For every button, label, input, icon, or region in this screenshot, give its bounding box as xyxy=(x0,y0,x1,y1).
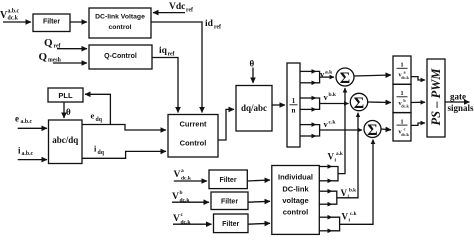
svg-text:a.b.c: a.b.c xyxy=(22,151,34,157)
wire 1/n out b1 xyxy=(300,97,316,99)
svg-text:1: 1 xyxy=(400,90,403,97)
label Vb dc.k xyxy=(172,190,190,204)
filter F3 box xyxy=(211,192,248,210)
svg-text:DC-link Voltage: DC-link Voltage xyxy=(95,14,145,21)
wire Vi a out 2 xyxy=(319,180,332,182)
wire id_ref xyxy=(151,22,202,113)
wire PLL feedback xyxy=(85,94,110,124)
label Vdc_ref xyxy=(169,2,193,14)
label e_a.b.c xyxy=(15,113,33,125)
label v b.k xyxy=(324,92,337,102)
svg-text:dc.k: dc.k xyxy=(181,220,192,226)
wire F1 to DC-link control xyxy=(70,21,87,23)
svg-text:dq: dq xyxy=(98,150,105,156)
block PLL xyxy=(48,88,83,102)
wire F3 to individual control xyxy=(248,200,270,203)
wire 1/n out a2 xyxy=(300,82,316,84)
svg-text:control: control xyxy=(108,24,131,31)
wire Vdc.k input arrow xyxy=(3,21,31,23)
text Individual DC-link voltage control xyxy=(278,173,313,217)
svg-text:V: V xyxy=(173,214,180,224)
text 1/va fraction xyxy=(397,62,410,81)
wire 1/n out a1 xyxy=(300,70,316,72)
svg-text:Control: Control xyxy=(180,139,207,148)
wire 1/vc to PS-PWM xyxy=(411,123,425,125)
svg-text:1: 1 xyxy=(400,118,403,125)
wire S1 to 1/va box xyxy=(354,75,391,76)
block Q-Control xyxy=(89,45,152,69)
label Vi b.k xyxy=(341,188,357,201)
wire merge c to sum3 xyxy=(316,125,320,136)
svg-text:voltage: voltage xyxy=(282,196,308,205)
wire Vi b out 1 xyxy=(319,190,332,192)
wire Vc dc.k input xyxy=(173,223,212,225)
wire gate signals output xyxy=(445,101,470,103)
svg-text:control: control xyxy=(283,208,308,217)
svg-text:Σ: Σ xyxy=(367,122,377,139)
svg-text:Σ: Σ xyxy=(354,95,364,112)
text 1/n fraction xyxy=(290,97,298,115)
svg-text:V: V xyxy=(172,192,179,202)
svg-text:gate: gate xyxy=(450,92,466,102)
svg-text:V: V xyxy=(341,188,348,198)
svg-text:dq: dq xyxy=(96,117,103,123)
summing junction S2 xyxy=(350,93,367,110)
label Vi a.k xyxy=(328,151,343,164)
block PS-PWM xyxy=(427,59,445,137)
svg-text:ref: ref xyxy=(54,44,61,50)
filter F1 box xyxy=(33,14,70,32)
svg-text:b.k: b.k xyxy=(349,188,356,194)
svg-text:mesh: mesh xyxy=(48,58,62,64)
svg-text:1: 1 xyxy=(400,62,403,69)
wire 1/n out c2 xyxy=(300,135,316,137)
svg-text:b.k: b.k xyxy=(329,92,337,98)
svg-text:V: V xyxy=(328,152,335,162)
wire Q_mesh input xyxy=(53,62,87,64)
label Vi c.k xyxy=(342,211,357,224)
svg-text:a: a xyxy=(181,168,184,174)
label v c.k xyxy=(324,119,337,129)
svg-text:id: id xyxy=(205,19,214,29)
svg-text:PS – PWM: PS – PWM xyxy=(429,68,443,126)
label gate signals xyxy=(448,92,474,114)
block DC-link Voltage control xyxy=(89,8,151,38)
svg-text:signals: signals xyxy=(448,103,474,113)
svg-text:Q-Control: Q-Control xyxy=(104,53,137,60)
wire merge Vi b riser to S2 xyxy=(332,191,337,204)
svg-text:dc.k: dc.k xyxy=(401,75,409,80)
wire Va dc.k input xyxy=(174,180,207,182)
label iq_ref xyxy=(159,46,175,58)
svg-text:DC-link: DC-link xyxy=(282,184,309,193)
svg-text:ref: ref xyxy=(214,25,221,31)
svg-text:Filter: Filter xyxy=(219,177,236,184)
wire 1/n out b2 xyxy=(300,108,316,110)
label e_dq xyxy=(91,111,103,123)
wire merge Vi c riser to S3 xyxy=(332,217,340,231)
svg-text:c.k: c.k xyxy=(350,211,357,217)
wire Vi c out 2 xyxy=(319,230,332,232)
svg-text:iq: iq xyxy=(159,46,168,56)
svg-text:Q: Q xyxy=(39,51,48,63)
svg-text:ref: ref xyxy=(168,52,175,58)
label V a.b.c dc.k top left xyxy=(0,9,20,22)
label Q_ref xyxy=(44,37,61,50)
svg-text:dc.k: dc.k xyxy=(181,176,192,182)
svg-text:b: b xyxy=(180,190,183,196)
svg-text:V: V xyxy=(342,212,349,222)
wire F2 to individual control xyxy=(247,180,270,181)
block Current Control xyxy=(168,115,218,158)
label v a.k xyxy=(320,69,333,79)
svg-text:ref: ref xyxy=(186,8,193,14)
summing junction S1 xyxy=(336,68,354,86)
filter F2 box xyxy=(209,170,247,189)
label Va dc.k xyxy=(174,168,192,182)
block dq/abc xyxy=(236,86,272,132)
label i_dq xyxy=(94,144,105,156)
svg-text:Individual: Individual xyxy=(278,173,313,182)
wire S2 to 1/vb box xyxy=(368,101,391,104)
wire theta to dq/abc xyxy=(252,68,254,84)
block 1/n xyxy=(287,63,300,147)
svg-text:Current: Current xyxy=(179,120,207,129)
wire i_abc input xyxy=(18,159,47,161)
wire Q_ref input xyxy=(57,48,87,50)
wire merge Vi a riser to S1 xyxy=(332,167,338,181)
wire Vi b out 2 xyxy=(319,203,332,205)
svg-text:a.b.c: a.b.c xyxy=(8,9,20,15)
svg-text:Σ: Σ xyxy=(340,70,350,87)
text 1/vc fraction xyxy=(397,118,410,137)
filter F4 box xyxy=(214,214,249,233)
svg-text:dc.k: dc.k xyxy=(401,132,409,137)
wire Current Control out to dq/abc xyxy=(218,109,234,140)
svg-text:θ: θ xyxy=(250,59,255,69)
label Vc dc.k xyxy=(173,212,191,226)
wire Vi c out 1 xyxy=(319,216,332,218)
svg-text:Filter: Filter xyxy=(221,199,238,206)
svg-text:θ: θ xyxy=(66,107,71,117)
svg-text:Q: Q xyxy=(44,37,53,49)
block 1/v dc.k a xyxy=(393,56,411,84)
wire 1/va to PS-PWM xyxy=(411,77,425,80)
svg-text:Filter: Filter xyxy=(222,221,239,228)
svg-text:a.k: a.k xyxy=(325,69,333,75)
wire F4 to individual control xyxy=(248,222,270,225)
svg-text:PLL: PLL xyxy=(58,91,73,100)
svg-text:c: c xyxy=(404,126,406,131)
svg-text:e: e xyxy=(91,111,95,121)
wire 1/n out c1 xyxy=(300,124,316,126)
svg-text:c.k: c.k xyxy=(329,120,337,126)
text 1/vb fraction xyxy=(397,90,410,109)
block abc/dq xyxy=(49,120,83,164)
wire dq/abc to 1/n xyxy=(272,104,285,106)
svg-text:a.b.c: a.b.c xyxy=(21,119,33,125)
label i_a.b.c xyxy=(18,145,34,157)
wire e_abc input xyxy=(18,127,47,129)
block 1/v dc.k b xyxy=(393,84,411,112)
svg-text:dc.k: dc.k xyxy=(401,104,409,109)
text DC-link Voltage control xyxy=(95,14,145,32)
block 1/v dc.k c xyxy=(393,113,411,141)
svg-text:dc.k: dc.k xyxy=(180,198,191,204)
label Q_mesh xyxy=(39,51,62,64)
wire Vi a out 1 xyxy=(319,166,332,168)
svg-text:e: e xyxy=(15,113,19,123)
wire iq_ref xyxy=(152,58,178,113)
svg-text:Vdc: Vdc xyxy=(169,2,185,12)
label id_ref xyxy=(205,19,221,31)
svg-text:abc/dq: abc/dq xyxy=(52,135,78,145)
wire Vb dc.k input xyxy=(172,201,209,203)
wire i_dq xyxy=(82,151,166,158)
svg-text:n: n xyxy=(292,107,296,115)
wire e_dq xyxy=(82,125,166,131)
summing junction S3 xyxy=(364,121,381,138)
svg-text:1: 1 xyxy=(292,97,296,105)
wire 1/vb to PS-PWM xyxy=(411,101,425,103)
wire merge a to sum1 xyxy=(316,71,320,82)
svg-text:dq/abc: dq/abc xyxy=(241,103,267,113)
wire S3 to 1/vc box xyxy=(381,128,391,131)
svg-text:V: V xyxy=(174,170,181,180)
wire Vdc_ref input xyxy=(153,12,185,14)
svg-text:Filter: Filter xyxy=(43,19,60,26)
text Current Control xyxy=(179,120,207,148)
wire theta PLL to abc/dq xyxy=(63,102,65,118)
svg-text:a.k: a.k xyxy=(336,151,343,157)
svg-text:dc.k: dc.k xyxy=(8,15,19,21)
block Individual DC-link voltage control xyxy=(272,166,320,235)
wire merge b to sum2 xyxy=(316,98,320,109)
